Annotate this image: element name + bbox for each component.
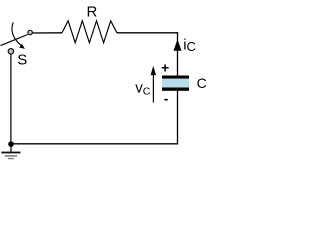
voltage arrow vC head: [151, 66, 156, 75]
switch S lower contact: [8, 49, 14, 55]
ground bar 1: [1, 152, 20, 154]
svg-text:iC: iC: [183, 37, 196, 54]
svg-text:S: S: [17, 52, 27, 69]
voltage arrow vC shaft: [152, 72, 154, 103]
wire top-left (pivot contact to resistor): [33, 32, 63, 34]
resistor R: [62, 21, 117, 43]
ground stub: [10, 144, 12, 152]
switch S blade: [1, 35, 28, 46]
ground bar 3: [8, 158, 14, 159]
wire top-right (resistor to corner): [117, 32, 178, 34]
capacitor C dielectric (light blue): [162, 79, 189, 88]
wire bottom (right corner to ground junction): [11, 143, 178, 145]
junction dot: [8, 141, 14, 147]
svg-text:C: C: [197, 75, 207, 91]
switch closing arrowhead: [19, 44, 25, 49]
current arrow iC (arrowhead on right wire): [174, 39, 182, 51]
switch S pivot contact: [28, 30, 32, 35]
wire left (lower switch contact down to junction): [10, 55, 12, 145]
capacitor C top plate: [162, 76, 189, 79]
wire right upper (corner down to capacitor top plate): [177, 32, 179, 76]
svg-text:R: R: [87, 3, 98, 20]
svg-text:-: -: [164, 91, 169, 107]
ground bar 2: [5, 155, 17, 157]
wire right lower (capacitor bottom plate down to bottom corner): [177, 91, 179, 145]
switch closing arc: [12, 22, 22, 45]
capacitor C bottom plate: [162, 88, 189, 91]
svg-text:+: +: [161, 60, 169, 76]
